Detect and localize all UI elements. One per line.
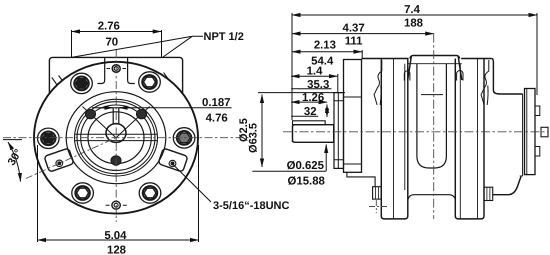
pilot rings	[75, 99, 158, 176]
square mounting plate	[49, 57, 182, 180]
bottom small hole	[112, 201, 120, 209]
keyway dim 0.187/4.76	[92, 107, 232, 109]
step under flange + lug	[347, 172, 375, 187]
left bolt (dark)	[38, 128, 60, 148]
inner bore	[88, 112, 144, 164]
5.04/128	[38, 145, 199, 242]
NPT leaders	[72, 36, 204, 57]
7.4 / 188	[292, 14, 537, 16]
end cap	[525, 89, 536, 175]
shaft	[293, 125, 335, 143]
bottom-right bolt	[139, 183, 161, 203]
svg-text:Ø0.625: Ø0.625	[287, 160, 325, 172]
UNC leader	[173, 165, 211, 202]
keyway	[113, 108, 119, 124]
cover ring	[66, 92, 166, 184]
plate corner chamfer lines top-right	[157, 73, 176, 100]
30 deg dashed line	[26, 138, 116, 179]
left wing tab	[44, 148, 74, 172]
svg-text:3-5/16“-18UNC: 3-5/16“-18UNC	[213, 200, 289, 212]
rear stub	[541, 127, 548, 137]
fillet to mid bottom	[408, 195, 456, 200]
under-boss line	[409, 63, 462, 65]
cap tabs	[535, 106, 540, 116]
body top line	[362, 58, 492, 60]
port cross line	[421, 94, 443, 96]
svg-text:2.13: 2.13	[314, 40, 336, 52]
centerlines front	[3, 50, 250, 222]
right wing tab	[158, 148, 188, 172]
centerlines side	[283, 34, 548, 219]
hex bolts	[38, 72, 195, 203]
2.13 / 54.4	[292, 51, 362, 53]
svg-text:4.76: 4.76	[206, 113, 228, 125]
pilot boss	[334, 93, 344, 169]
svg-text:188: 188	[404, 18, 423, 30]
relief tabs	[404, 71, 410, 81]
plate corner chamfer lines top-left	[52, 76, 72, 98]
1.26 / 32	[291, 101, 327, 103]
top tab lines	[98, 58, 105, 84]
shaft circle	[106, 124, 126, 143]
svg-text:70: 70	[105, 37, 118, 49]
svg-text:NPT 1/2: NPT 1/2	[204, 31, 244, 43]
svg-text:128: 128	[107, 245, 126, 255]
30 deg arc	[3, 139, 22, 141]
common left ext	[291, 13, 293, 120]
right tower/foot	[455, 59, 484, 219]
top-left bolt (dark)	[71, 73, 93, 93]
rear joint verticals	[520, 94, 523, 176]
svg-text:111: 111	[345, 36, 363, 48]
svg-text:35.3: 35.3	[307, 79, 329, 91]
top-right bolt	[139, 72, 161, 92]
1.4 / 35.3	[291, 75, 337, 77]
mounting flange	[344, 60, 362, 173]
small screws on inner circle	[86, 109, 147, 165]
spokes	[82, 107, 149, 138]
key on shaft	[293, 121, 326, 125]
dia 2.5/63.5	[261, 95, 263, 168]
dia 0.625 leader	[325, 145, 327, 172]
4.37 / 111	[292, 33, 434, 35]
S squiggles (cast break lines)	[374, 60, 382, 105]
svg-text:Ø15.88: Ø15.88	[288, 176, 325, 188]
svg-text:1.26: 1.26	[302, 92, 324, 104]
rear bottom profile	[493, 177, 521, 195]
top small hole	[112, 65, 120, 73]
wing holes	[56, 160, 176, 167]
right bolt	[173, 128, 195, 148]
chords across pilot	[75, 134, 157, 140]
svg-text:7.4: 7.4	[404, 4, 420, 16]
U cavity	[417, 64, 447, 168]
rear top profile	[492, 59, 523, 95]
bottom-left bolt	[72, 183, 94, 203]
svg-text:0.187: 0.187	[202, 97, 231, 109]
dim 2.76/70	[72, 30, 162, 57]
svg-text:32: 32	[304, 106, 317, 118]
svg-text:1.4: 1.4	[307, 66, 323, 78]
right lug	[484, 187, 493, 200]
flange outer ellipse	[34, 62, 198, 214]
left tower/foot	[381, 59, 408, 219]
svg-text:Ø63.5: Ø63.5	[248, 123, 260, 153]
svg-text:4.37: 4.37	[343, 23, 365, 35]
svg-text:2.76: 2.76	[98, 21, 120, 33]
port boss	[408, 56, 462, 81]
svg-text:5.04: 5.04	[104, 230, 127, 242]
